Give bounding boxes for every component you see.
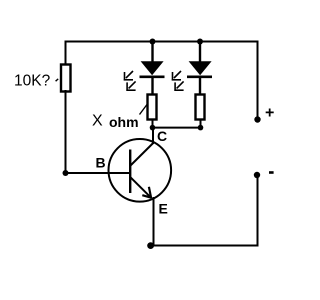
transistor Q1 collector stroke bbox=[131, 143, 154, 166]
terminal dot plus bbox=[254, 116, 260, 122]
wire LED1 cathode to R2 bbox=[151, 78, 153, 95]
svg-text:ohm: ohm bbox=[109, 114, 139, 130]
LED D1 cathode bar bbox=[140, 76, 165, 79]
wire base lead bbox=[66, 172, 132, 174]
wire right vertical lower bbox=[257, 175, 259, 246]
wire top rail bbox=[65, 41, 259, 43]
junction dot node C bbox=[150, 125, 156, 131]
LED D1 triangle bbox=[141, 61, 164, 75]
junction dot emitter bottom bbox=[147, 242, 154, 249]
svg-text:X: X bbox=[92, 113, 103, 130]
transistor Q1 emitter arrowhead barb left bbox=[142, 195, 151, 198]
LED D1 arrow 1 bbox=[124, 71, 133, 81]
transistor Q1 emitter arrowhead barb upper bbox=[149, 187, 151, 199]
terminal dot minus bbox=[254, 172, 260, 178]
svg-text:E: E bbox=[159, 201, 168, 217]
svg-text:C: C bbox=[157, 128, 167, 144]
wire LED2 cathode to R3 bbox=[199, 78, 201, 95]
junction dot at base corner bbox=[63, 170, 69, 176]
wire emitter vertical bbox=[153, 197, 155, 246]
junction dot LED1 top bbox=[150, 39, 156, 45]
transistor Q1 emitter stroke bbox=[131, 177, 152, 198]
LED D2 triangle bbox=[189, 61, 212, 75]
transistor Q1 body circle bbox=[109, 139, 172, 202]
wire bottom rail bbox=[151, 245, 259, 247]
svg-text:+: + bbox=[265, 105, 274, 122]
junction dot LED2 top bbox=[197, 39, 203, 45]
wire R3 bottom stub bbox=[200, 119, 202, 128]
wire left vertical lower bbox=[65, 90, 67, 173]
pointer line X ohm to R2 bbox=[140, 105, 148, 115]
LED D2 arrow 1 bbox=[172, 71, 181, 81]
resistor R3 bbox=[196, 95, 205, 120]
junction dot R3 bottom bbox=[198, 125, 204, 131]
wire left vertical upper bbox=[65, 41, 67, 67]
resistor R2 X ohm bbox=[148, 95, 157, 120]
wire between resistor bottoms bbox=[153, 127, 201, 129]
pointer tick to R1 bbox=[56, 79, 59, 81]
wire R2 bottom stub bbox=[152, 119, 154, 128]
LED D2 cathode bar bbox=[187, 76, 212, 79]
LED D1 arrow 2 bbox=[126, 81, 135, 91]
wire right vertical upper bbox=[257, 41, 259, 120]
LED D2 arrow 2 bbox=[174, 81, 183, 91]
wire LED2 anode bbox=[199, 42, 201, 63]
svg-text:10K?: 10K? bbox=[14, 73, 51, 90]
resistor R1 10K bbox=[61, 65, 71, 92]
label minus bbox=[269, 171, 274, 174]
wire LED1 anode bbox=[151, 42, 153, 63]
svg-text:B: B bbox=[96, 155, 106, 171]
transistor Q1 base bar bbox=[129, 150, 131, 194]
wire collector stub bbox=[152, 128, 154, 145]
